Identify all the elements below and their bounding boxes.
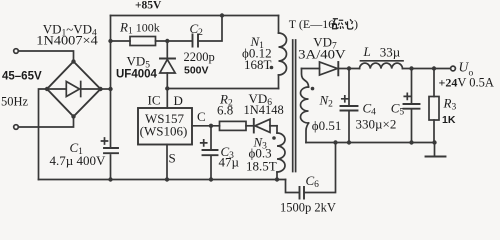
svg-text:33µ: 33µ bbox=[380, 45, 401, 60]
node S bottom bbox=[165, 177, 169, 181]
resistor R1 bbox=[130, 37, 156, 46]
svg-text:R1100k: R1100k bbox=[119, 20, 160, 37]
svg-text:168T: 168T bbox=[244, 57, 272, 72]
svg-text:C6: C6 bbox=[306, 173, 320, 190]
node C5 bottom bbox=[409, 140, 413, 144]
svg-text:D: D bbox=[174, 93, 183, 108]
svg-text:18.5T: 18.5T bbox=[246, 159, 277, 174]
capacitor C3 bbox=[210, 126, 212, 149]
svg-text:C: C bbox=[197, 109, 206, 124]
svg-text:+24V 0.5A: +24V 0.5A bbox=[439, 76, 494, 90]
secondary ground rail bbox=[306, 142, 435, 144]
capacitor C4 bbox=[348, 69, 350, 105]
svg-text:T (E—16: T (E—16 bbox=[289, 17, 334, 31]
S pin wire bbox=[166, 145, 168, 180]
svg-text:R3: R3 bbox=[443, 96, 457, 113]
node C3 bottom bbox=[209, 177, 213, 181]
jog down to C6 bbox=[286, 180, 300, 193]
svg-text:45–65V: 45–65V bbox=[2, 71, 42, 83]
capacitor C1 bbox=[104, 148, 118, 153]
ground bbox=[434, 143, 436, 157]
inductor L bbox=[360, 63, 403, 68]
svg-text:6.8: 6.8 bbox=[217, 103, 233, 118]
wire y88.5 from VD5/D to N1 bottom bbox=[167, 88, 278, 90]
node C5 tap bbox=[409, 66, 413, 70]
svg-text:N2: N2 bbox=[319, 93, 334, 110]
N3 polarity dot bbox=[272, 136, 276, 140]
diode VD7 bbox=[302, 68, 320, 70]
primary bottom rail bbox=[39, 179, 286, 181]
diode VD5 bbox=[166, 41, 168, 58]
svg-text:1500p 2kV: 1500p 2kV bbox=[280, 201, 336, 215]
N2 polarity dot bbox=[311, 87, 315, 91]
N1 polarity dot bbox=[270, 66, 274, 70]
svg-text:C5: C5 bbox=[391, 101, 405, 118]
svg-text:+85V: +85V bbox=[135, 0, 162, 12]
hanzi xin (heart) drawn strokes bbox=[345, 19, 353, 29]
node junction right vertex to vertical bbox=[108, 87, 112, 91]
svg-text:(WS106): (WS106) bbox=[140, 124, 188, 139]
node C4 tap bbox=[347, 66, 351, 70]
winding N1 primary bbox=[278, 16, 280, 34]
resistor R3 bbox=[433, 69, 435, 97]
svg-text:4.7µ 400V: 4.7µ 400V bbox=[50, 153, 106, 168]
input terminal bottom bbox=[14, 125, 19, 130]
node R3 bottom bbox=[432, 140, 436, 144]
wire R1 to C2 bbox=[156, 40, 193, 42]
node C1 bottom bbox=[108, 177, 112, 181]
C pin wire bbox=[192, 125, 220, 127]
svg-text:2200p: 2200p bbox=[184, 50, 215, 64]
node R3 tap bbox=[432, 66, 436, 70]
label L 33u underline bbox=[361, 60, 404, 62]
svg-text:500V: 500V bbox=[184, 65, 209, 77]
node C6 top bbox=[333, 140, 337, 144]
capacitor C6 bbox=[300, 187, 305, 199]
svg-text:1N4007×4: 1N4007×4 bbox=[36, 33, 98, 48]
bridge inner diode bbox=[49, 88, 67, 90]
output terminal bbox=[451, 66, 456, 71]
node VD5 tap bbox=[165, 39, 169, 43]
top line y15.5 bbox=[111, 15, 279, 17]
svg-text:50Hz: 50Hz bbox=[1, 95, 29, 109]
D pin wire bbox=[166, 89, 168, 109]
wire C2 right up to top line bbox=[199, 16, 223, 42]
main DC+ vertical x=110.5 bbox=[110, 16, 112, 147]
node N3 bottom bbox=[275, 177, 279, 181]
transformer core bbox=[293, 40, 296, 172]
svg-text:330µ×2: 330µ×2 bbox=[356, 117, 397, 132]
winding N3 bbox=[276, 126, 278, 133]
wire R2 to VD6 bbox=[246, 125, 254, 127]
svg-text:C2: C2 bbox=[190, 21, 204, 38]
svg-text:): ) bbox=[354, 17, 358, 31]
wire L to output bbox=[403, 68, 451, 70]
output wire bbox=[338, 68, 359, 70]
bridge rectifier VD1-VD4 diamond bbox=[47, 62, 101, 117]
svg-text:1N4148: 1N4148 bbox=[244, 103, 284, 117]
node C4 bottom bbox=[347, 140, 351, 144]
svg-text:C4: C4 bbox=[363, 101, 377, 118]
diode VD6 bbox=[253, 119, 255, 133]
svg-text:47µ: 47µ bbox=[219, 155, 240, 170]
node C3 tap bbox=[209, 124, 213, 128]
svg-text:UF4004: UF4004 bbox=[116, 69, 158, 81]
svg-text:3A/40V: 3A/40V bbox=[298, 47, 346, 62]
capacitor C5 bbox=[411, 69, 413, 103]
svg-text:ϕ0.51: ϕ0.51 bbox=[312, 118, 342, 133]
svg-text:L: L bbox=[363, 44, 371, 59]
main rail y41 bbox=[111, 40, 131, 42]
winding N2 secondary bbox=[302, 69, 309, 88]
resistor R2 bbox=[220, 121, 247, 130]
capacitor C2 bbox=[193, 35, 199, 47]
bridge vertex dots bbox=[71, 59, 75, 63]
node on top line bbox=[220, 13, 224, 17]
hanzi ci (magnet) drawn strokes bbox=[332, 19, 343, 29]
wire bottom terminal to bridge bottom bbox=[19, 117, 74, 128]
IC box WS157 bbox=[138, 108, 192, 145]
node D junction bbox=[165, 86, 169, 90]
wire bridge right vertex to main vertical bbox=[101, 88, 111, 90]
wire top terminal to bridge top bbox=[19, 51, 74, 62]
svg-text:1K: 1K bbox=[442, 114, 456, 126]
svg-text:S: S bbox=[169, 151, 176, 166]
wire bridge left vertex to bottom-left corner bbox=[39, 89, 48, 180]
input terminal top bbox=[14, 49, 19, 54]
svg-text:IC: IC bbox=[148, 93, 161, 108]
node rail left bbox=[108, 39, 112, 43]
